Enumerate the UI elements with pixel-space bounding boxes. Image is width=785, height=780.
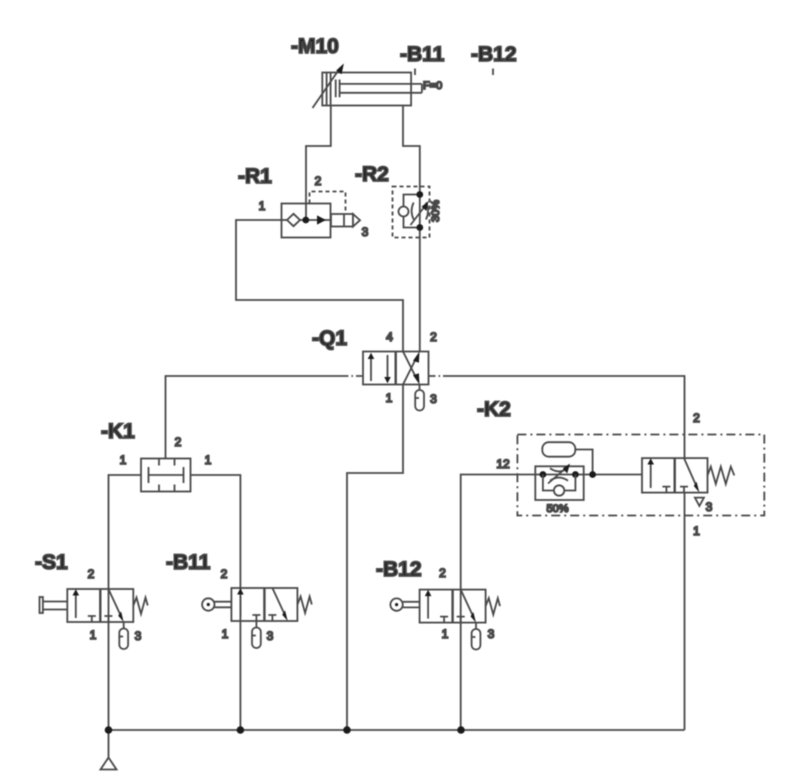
svg-text:1: 1	[442, 627, 449, 641]
svg-text:-M10: -M10	[291, 35, 339, 58]
svg-text:-B12: -B12	[376, 558, 422, 581]
svg-text:50%: 50%	[546, 503, 568, 515]
svg-text:3: 3	[430, 392, 437, 406]
compressed air source	[101, 730, 117, 770]
svg-text:1: 1	[90, 628, 97, 642]
svg-text:F=0: F=0	[423, 80, 442, 92]
silencer Q1 port 3	[415, 385, 424, 411]
wire Q1 port 1 to bottom supply bus	[347, 385, 403, 731]
svg-text:-S1: -S1	[35, 551, 68, 574]
svg-text:-B11: -B11	[166, 551, 211, 574]
svg-text:1: 1	[386, 391, 393, 405]
two pressure valve K1	[141, 459, 191, 492]
svg-text:3: 3	[488, 627, 495, 641]
valve B11 (3/2 roller, actuated)	[202, 588, 312, 648]
time delay valve group K2	[517, 435, 764, 516]
svg-text:2: 2	[175, 435, 182, 449]
svg-text:3: 3	[135, 629, 142, 643]
svg-text:-Q1: -Q1	[312, 327, 347, 350]
svg-text:2: 2	[221, 567, 228, 581]
wire B12 port 2 to K2 port 12 and B12 port 1 to bus	[461, 475, 642, 731]
wire cylinder left port to R1 port 2	[306, 106, 331, 221]
wire K1 port 1 right through B11 to bus	[191, 475, 241, 730]
wire cylinder right port through R2 to Q1 port 2	[403, 106, 420, 352]
quick exhaust valve R1	[282, 192, 361, 238]
junction node bus 2	[237, 726, 245, 734]
wire R1 port 1 to Q1 port 4	[236, 220, 403, 352]
sensor mark B12	[492, 69, 494, 76]
svg-text:2: 2	[439, 566, 446, 580]
sensor mark B11	[414, 69, 416, 76]
valve S1 (3/2 push button)	[40, 589, 148, 649]
junction node bus 4	[457, 726, 465, 734]
junction node bus 1	[105, 726, 113, 734]
svg-text:-B11: -B11	[400, 43, 445, 66]
valve B12 (3/2 roller)	[390, 590, 500, 650]
svg-text:-R2: -R2	[355, 163, 389, 186]
svg-text:1: 1	[222, 627, 229, 641]
svg-text:-B12: -B12	[471, 43, 517, 66]
svg-text:3: 3	[706, 500, 713, 514]
svg-text:3: 3	[362, 225, 369, 239]
svg-text:1: 1	[259, 199, 266, 213]
wire supply bus	[109, 729, 685, 731]
K2 reservoir	[542, 442, 596, 478]
svg-text:1: 1	[205, 453, 212, 467]
K2 pilot valve (3/2)	[642, 458, 734, 506]
svg-text:-R1: -R1	[238, 165, 272, 188]
svg-text:2: 2	[430, 330, 437, 344]
wire Q1 left pilot to K1 port 2	[344, 375, 363, 377]
junction node bus 3	[343, 726, 351, 734]
svg-text:-K1: -K1	[101, 420, 135, 443]
wire K2 valve port 1 down to bus	[684, 493, 686, 730]
svg-text:2: 2	[88, 567, 95, 581]
wire K1 port 1 left through S1 to bus	[109, 475, 142, 730]
svg-text:12: 12	[496, 457, 510, 471]
svg-text:2: 2	[693, 411, 700, 425]
svg-text:1: 1	[693, 524, 700, 538]
svg-text:4: 4	[386, 330, 393, 344]
svg-text:-K2: -K2	[477, 398, 511, 421]
svg-text:3: 3	[267, 629, 274, 643]
cylinder M10	[313, 63, 422, 108]
svg-text:1: 1	[120, 453, 127, 467]
flow control valve R2	[393, 187, 430, 238]
svg-text:2: 2	[315, 174, 322, 188]
svg-text:30%: 30%	[430, 200, 442, 222]
wire Q1 right pilot to K2 valve port 2	[429, 375, 444, 377]
K2 flow control 50%	[535, 464, 583, 501]
directional valve Q1 (4/2)	[363, 352, 429, 385]
